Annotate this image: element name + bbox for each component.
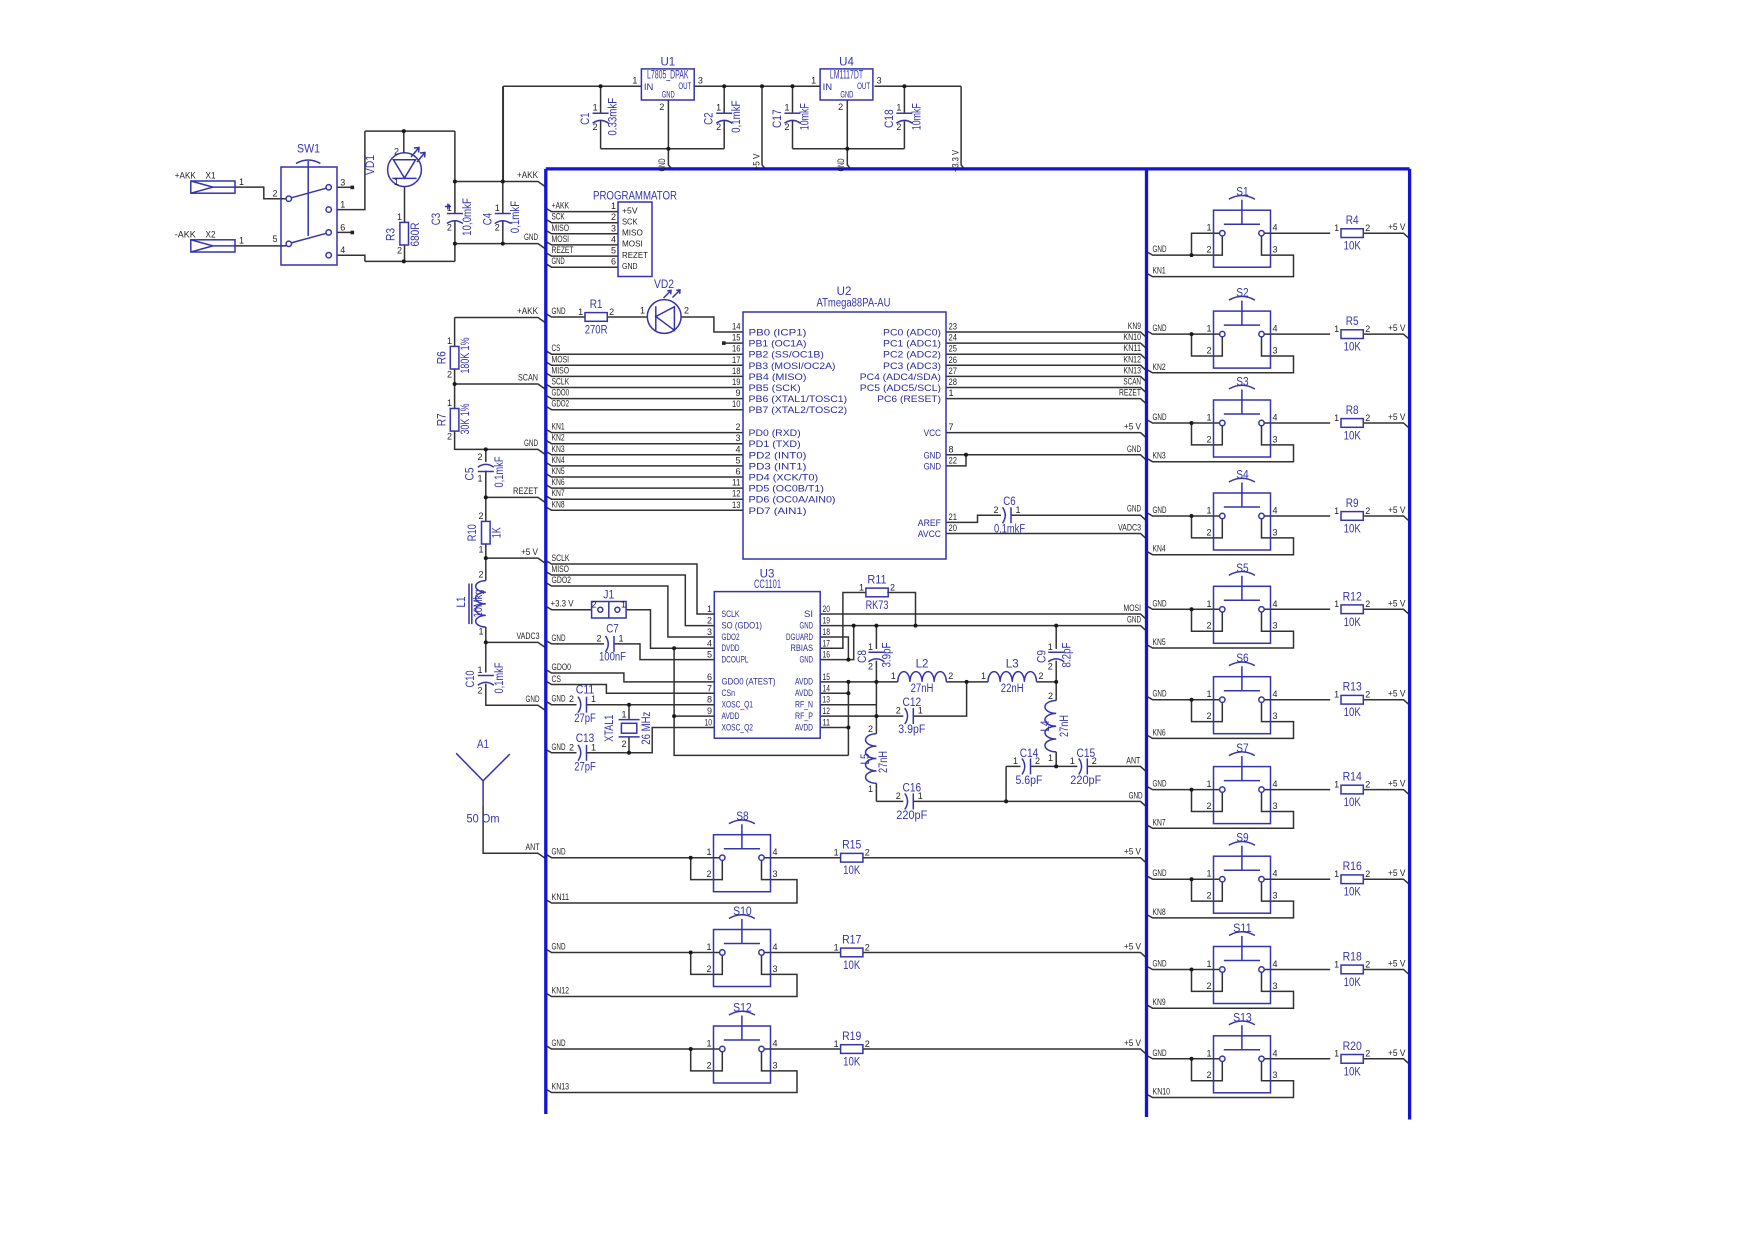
svg-text:2: 2 <box>1365 506 1370 516</box>
svg-text:10mkF: 10mkF <box>800 103 812 130</box>
svg-text:13: 13 <box>732 500 741 510</box>
svg-text:1: 1 <box>1048 642 1053 652</box>
svg-text:1: 1 <box>1048 753 1053 763</box>
svg-text:RF_N: RF_N <box>795 700 813 711</box>
svg-text:A1: A1 <box>477 739 489 751</box>
svg-text:GND: GND <box>1153 505 1167 515</box>
svg-text:S5: S5 <box>1236 563 1248 575</box>
svg-text:KN1: KN1 <box>552 422 565 432</box>
svg-text:50 Om: 50 Om <box>467 814 500 826</box>
svg-text:AREF: AREF <box>918 518 941 529</box>
svg-text:S4: S4 <box>1236 470 1249 482</box>
svg-text:SW1: SW1 <box>297 144 320 156</box>
svg-text:PD6 (OC0A/AIN0): PD6 (OC0A/AIN0) <box>749 495 836 506</box>
svg-text:SO (GDO1): SO (GDO1) <box>722 620 763 631</box>
svg-text:X1: X1 <box>206 171 216 181</box>
svg-text:2: 2 <box>1365 324 1370 334</box>
svg-text:14: 14 <box>732 322 741 332</box>
svg-text:2: 2 <box>569 742 574 752</box>
svg-text:22: 22 <box>949 455 958 465</box>
svg-text:17: 17 <box>732 355 741 365</box>
svg-text:0,1mkF: 0,1mkF <box>731 100 743 132</box>
svg-text:3: 3 <box>1273 621 1278 631</box>
svg-text:10K: 10K <box>1344 1066 1361 1078</box>
svg-text:4: 4 <box>1273 1048 1278 1058</box>
svg-text:KN5: KN5 <box>552 466 565 476</box>
svg-text:3: 3 <box>1273 711 1278 721</box>
svg-text:AVDD: AVDD <box>795 722 813 733</box>
svg-text:MOSI: MOSI <box>552 354 570 364</box>
svg-text:10K: 10K <box>843 960 860 972</box>
svg-text:PD3 (INT1): PD3 (INT1) <box>749 461 807 472</box>
svg-text:20: 20 <box>949 523 958 533</box>
svg-text:2: 2 <box>1365 779 1370 789</box>
svg-text:1: 1 <box>593 103 598 113</box>
svg-text:25: 25 <box>949 344 958 354</box>
svg-text:1: 1 <box>1334 779 1339 789</box>
svg-text:GND: GND <box>1153 323 1167 333</box>
svg-text:4: 4 <box>1273 599 1278 609</box>
svg-text:GND: GND <box>1153 598 1167 608</box>
svg-text:0,1mkF: 0,1mkF <box>494 457 506 488</box>
svg-text:GDO0: GDO0 <box>552 388 570 398</box>
svg-text:1: 1 <box>868 642 873 652</box>
svg-text:GND: GND <box>1153 412 1167 422</box>
svg-text:PC3 (ADC3): PC3 (ADC3) <box>883 361 941 372</box>
svg-text:GND: GND <box>524 232 538 242</box>
svg-text:2: 2 <box>1365 599 1370 609</box>
svg-text:270R: 270R <box>585 325 608 337</box>
svg-text:+5 V: +5 V <box>1388 323 1406 333</box>
svg-text:REZET: REZET <box>1119 388 1141 398</box>
svg-text:10Mkg: 10Mkg <box>473 590 485 618</box>
svg-text:1: 1 <box>1334 599 1339 609</box>
svg-text:2: 2 <box>896 706 901 716</box>
svg-text:OUT: OUT <box>857 81 870 92</box>
svg-text:GND: GND <box>1153 1048 1167 1058</box>
svg-text:DCOUPL: DCOUPL <box>722 654 749 665</box>
svg-text:S13: S13 <box>1233 1012 1252 1024</box>
svg-text:+5 V: +5 V <box>1388 505 1406 515</box>
svg-text:GDO2: GDO2 <box>552 399 570 409</box>
svg-text:1: 1 <box>1334 869 1339 879</box>
svg-text:C4: C4 <box>482 212 494 225</box>
svg-text:+5 V: +5 V <box>1388 598 1406 608</box>
svg-text:3: 3 <box>1273 245 1278 255</box>
svg-text:15: 15 <box>732 333 741 343</box>
svg-text:1: 1 <box>1206 324 1211 334</box>
svg-text:10K: 10K <box>1344 707 1361 719</box>
svg-text:5: 5 <box>611 246 616 256</box>
svg-text:GDO0 (ATEST): GDO0 (ATEST) <box>722 677 776 688</box>
svg-text:KN13: KN13 <box>1123 365 1141 375</box>
svg-text:1: 1 <box>896 103 901 113</box>
svg-text:4: 4 <box>1273 689 1278 699</box>
svg-text:23: 23 <box>949 322 958 332</box>
svg-text:1: 1 <box>611 201 616 211</box>
svg-text:PC1 (ADC1): PC1 (ADC1) <box>883 339 941 350</box>
svg-text:GND: GND <box>1153 689 1167 699</box>
svg-text:10K: 10K <box>1344 977 1361 989</box>
svg-text:9: 9 <box>735 388 740 398</box>
svg-text:2: 2 <box>659 102 664 112</box>
svg-text:1: 1 <box>1206 599 1211 609</box>
svg-text:KN3: KN3 <box>552 444 565 454</box>
svg-text:GND: GND <box>800 654 814 665</box>
svg-text:2: 2 <box>868 662 873 672</box>
svg-text:R11: R11 <box>867 575 886 587</box>
svg-text:27nH: 27nH <box>1059 715 1071 737</box>
svg-text:6: 6 <box>611 257 616 267</box>
svg-text:+5 V: +5 V <box>1388 1048 1406 1058</box>
svg-text:1: 1 <box>1206 869 1211 879</box>
svg-text:2: 2 <box>896 791 901 801</box>
svg-text:GND: GND <box>1129 790 1143 800</box>
svg-text:6: 6 <box>707 672 712 682</box>
svg-text:KN6: KN6 <box>552 477 565 487</box>
svg-text:CC1101: CC1101 <box>754 579 781 591</box>
svg-text:3: 3 <box>1273 981 1278 991</box>
svg-text:PD1 (TXD): PD1 (TXD) <box>749 439 801 450</box>
svg-text:ANT: ANT <box>526 842 540 852</box>
svg-text:PD2 (INT0): PD2 (INT0) <box>749 450 807 461</box>
svg-text:GND: GND <box>657 158 667 171</box>
svg-text:REZET: REZET <box>552 245 574 255</box>
svg-text:GND: GND <box>924 461 942 472</box>
svg-text:1: 1 <box>591 694 596 704</box>
svg-text:10K: 10K <box>1344 241 1361 253</box>
svg-text:4: 4 <box>735 444 740 454</box>
svg-text:GND: GND <box>1153 959 1167 969</box>
svg-text:PB3 (MOSI/OC2A): PB3 (MOSI/OC2A) <box>749 361 836 372</box>
svg-text:PB1 (OC1A): PB1 (OC1A) <box>749 339 807 350</box>
svg-text:PC4 (ADC4/SDA): PC4 (ADC4/SDA) <box>860 372 941 383</box>
svg-text:2: 2 <box>838 102 843 112</box>
svg-text:2: 2 <box>477 452 482 462</box>
svg-text:3: 3 <box>1273 527 1278 537</box>
svg-text:GND: GND <box>524 438 538 448</box>
svg-text:8: 8 <box>707 695 712 705</box>
svg-text:PB2 (SS/OC1B): PB2 (SS/OC1B) <box>749 350 824 361</box>
svg-text:XOSC_Q2: XOSC_Q2 <box>722 722 754 733</box>
svg-text:ANT: ANT <box>1126 755 1140 765</box>
svg-text:1: 1 <box>621 600 626 610</box>
svg-text:2: 2 <box>609 307 614 317</box>
svg-text:IN: IN <box>823 82 833 93</box>
svg-text:16: 16 <box>732 344 741 354</box>
svg-text:2: 2 <box>1206 1070 1211 1080</box>
svg-text:SCK: SCK <box>622 217 638 227</box>
svg-text:PB7 (XTAL2/TOSC2): PB7 (XTAL2/TOSC2) <box>749 405 848 416</box>
svg-text:SCLK: SCLK <box>722 609 740 620</box>
svg-text:1: 1 <box>239 236 244 246</box>
svg-text:1: 1 <box>1334 324 1339 334</box>
svg-text:2: 2 <box>478 511 483 521</box>
svg-text:GND: GND <box>1153 868 1167 878</box>
svg-text:2: 2 <box>707 616 712 626</box>
svg-text:8: 8 <box>949 444 954 454</box>
svg-text:6: 6 <box>735 467 740 477</box>
svg-text:3: 3 <box>735 433 740 443</box>
svg-text:2: 2 <box>593 122 598 132</box>
svg-text:10K: 10K <box>843 865 860 877</box>
svg-text:4: 4 <box>773 942 778 952</box>
svg-text:+5 V: +5 V <box>1124 422 1141 432</box>
svg-text:SCLK: SCLK <box>552 553 570 563</box>
svg-text:1: 1 <box>834 848 839 858</box>
svg-text:+5 V: +5 V <box>752 154 762 171</box>
svg-text:GDO2: GDO2 <box>722 632 740 643</box>
svg-text:PROGRAMMATOR: PROGRAMMATOR <box>593 191 677 203</box>
svg-text:2: 2 <box>621 739 626 749</box>
svg-text:10K: 10K <box>1344 431 1361 443</box>
svg-text:10K: 10K <box>1344 342 1361 354</box>
svg-text:1: 1 <box>1206 506 1211 516</box>
svg-text:SCAN: SCAN <box>1123 377 1141 387</box>
svg-text:GND: GND <box>1153 779 1167 789</box>
svg-text:GND: GND <box>552 694 566 704</box>
svg-text:KN8: KN8 <box>1153 907 1166 917</box>
svg-text:2: 2 <box>784 122 789 132</box>
svg-text:GDO2: GDO2 <box>552 575 572 585</box>
svg-text:AVDD: AVDD <box>795 688 813 699</box>
svg-text:2: 2 <box>706 964 711 974</box>
svg-text:+AKK: +AKK <box>175 171 196 181</box>
svg-text:5: 5 <box>707 650 712 660</box>
svg-text:2: 2 <box>1206 527 1211 537</box>
svg-text:+5 V: +5 V <box>1124 1038 1141 1048</box>
svg-text:11: 11 <box>732 478 741 488</box>
svg-text:1: 1 <box>834 1039 839 1049</box>
svg-text:1: 1 <box>918 706 923 716</box>
svg-text:1: 1 <box>1206 413 1211 423</box>
svg-text:4: 4 <box>773 847 778 857</box>
svg-text:J1: J1 <box>603 590 614 602</box>
svg-text:3: 3 <box>1273 434 1278 444</box>
svg-text:3: 3 <box>773 869 778 879</box>
svg-text:2: 2 <box>1365 869 1370 879</box>
svg-text:2: 2 <box>993 505 998 515</box>
svg-text:1: 1 <box>640 306 645 316</box>
svg-text:MOSI: MOSI <box>1124 603 1142 613</box>
svg-text:RF_P: RF_P <box>795 711 813 722</box>
svg-text:10K: 10K <box>843 1057 860 1069</box>
svg-text:4: 4 <box>611 234 616 244</box>
svg-text:MISO: MISO <box>552 564 570 574</box>
svg-text:24: 24 <box>949 333 958 343</box>
svg-text:1: 1 <box>621 710 626 720</box>
svg-text:KN9: KN9 <box>1153 997 1166 1007</box>
svg-text:2: 2 <box>1206 621 1211 631</box>
svg-text:KN8: KN8 <box>552 499 565 509</box>
svg-text:3: 3 <box>773 964 778 974</box>
svg-text:KN9: KN9 <box>1128 321 1141 331</box>
svg-text:2: 2 <box>865 848 870 858</box>
svg-text:GND: GND <box>924 450 942 461</box>
svg-text:KN10: KN10 <box>1153 1087 1171 1097</box>
svg-text:S9: S9 <box>1236 833 1248 845</box>
svg-text:SCAN: SCAN <box>518 373 538 383</box>
svg-text:4: 4 <box>1273 869 1278 879</box>
svg-text:GND: GND <box>552 306 566 316</box>
svg-text:GND: GND <box>552 742 566 752</box>
svg-text:2: 2 <box>611 212 616 222</box>
svg-text:2: 2 <box>1206 434 1211 444</box>
svg-text:14: 14 <box>823 683 831 693</box>
svg-text:R3: R3 <box>386 228 398 241</box>
svg-text:30K 1%: 30K 1% <box>460 404 472 435</box>
svg-text:KN11: KN11 <box>1123 343 1141 353</box>
svg-text:2: 2 <box>716 122 721 132</box>
svg-text:MISO: MISO <box>552 365 570 375</box>
svg-text:1K: 1K <box>492 527 504 538</box>
svg-text:+5 V: +5 V <box>1388 412 1406 422</box>
svg-text:+5 V: +5 V <box>521 547 538 557</box>
svg-text:1: 1 <box>949 388 954 398</box>
svg-text:VADC3: VADC3 <box>1118 523 1141 533</box>
svg-text:S6: S6 <box>1236 653 1248 665</box>
svg-text:2: 2 <box>1365 413 1370 423</box>
svg-text:+AKK: +AKK <box>517 306 538 316</box>
svg-text:GND: GND <box>836 158 846 171</box>
svg-text:VD1: VD1 <box>365 155 377 175</box>
svg-text:KN13: KN13 <box>552 1082 570 1092</box>
svg-text:1: 1 <box>811 76 816 86</box>
svg-text:5: 5 <box>735 455 740 465</box>
svg-text:PD5 (OC0B/T1): PD5 (OC0B/T1) <box>749 484 824 495</box>
svg-text:2: 2 <box>1365 690 1370 700</box>
svg-text:R6: R6 <box>436 351 448 364</box>
svg-text:AVDD: AVDD <box>722 711 740 722</box>
svg-text:2: 2 <box>735 422 740 432</box>
svg-text:2: 2 <box>865 1039 870 1049</box>
svg-text:KN6: KN6 <box>1153 727 1166 737</box>
svg-text:PC0 (ADC0): PC0 (ADC0) <box>883 328 941 339</box>
svg-text:PB5 (SCK): PB5 (SCK) <box>749 383 801 394</box>
svg-text:2: 2 <box>1048 691 1053 701</box>
svg-text:GND: GND <box>1127 444 1141 454</box>
svg-text:2: 2 <box>1206 891 1211 901</box>
svg-text:C7: C7 <box>606 623 618 635</box>
svg-text:3: 3 <box>611 223 616 233</box>
svg-text:2: 2 <box>896 122 901 132</box>
svg-text:1: 1 <box>859 582 864 592</box>
svg-text:L1: L1 <box>456 597 468 608</box>
svg-text:1: 1 <box>706 1039 711 1049</box>
svg-text:21: 21 <box>949 512 958 522</box>
svg-text:4: 4 <box>1273 779 1278 789</box>
svg-text:SI: SI <box>804 609 813 620</box>
svg-text:2: 2 <box>1365 959 1370 969</box>
svg-text:2: 2 <box>1035 756 1040 766</box>
svg-text:2: 2 <box>447 223 452 233</box>
svg-text:DVDD: DVDD <box>722 643 740 654</box>
svg-text:+AKK: +AKK <box>552 201 570 211</box>
svg-text:RK73: RK73 <box>866 600 889 612</box>
svg-text:1: 1 <box>340 200 345 210</box>
svg-text:1: 1 <box>918 791 923 801</box>
svg-text:PB6 (XTAL1/TOSC1): PB6 (XTAL1/TOSC1) <box>749 394 848 405</box>
svg-text:2: 2 <box>447 432 452 442</box>
svg-text:PC6 (RESET): PC6 (RESET) <box>877 394 941 405</box>
svg-text:2: 2 <box>394 147 399 157</box>
svg-text:0,1mkF: 0,1mkF <box>994 523 1025 535</box>
svg-text:GND: GND <box>552 256 566 266</box>
svg-text:1: 1 <box>891 671 896 681</box>
svg-text:4: 4 <box>1273 506 1278 516</box>
svg-text:0,1mkF: 0,1mkF <box>510 201 522 233</box>
svg-text:PD4 (XCK/T0): PD4 (XCK/T0) <box>749 473 819 484</box>
svg-text:LM1117DT: LM1117DT <box>830 70 863 82</box>
svg-text:PD7 (AIN1): PD7 (AIN1) <box>749 506 807 517</box>
svg-text:R19: R19 <box>842 1031 861 1043</box>
svg-text:S11: S11 <box>1233 923 1252 935</box>
svg-text:1: 1 <box>1334 1049 1339 1059</box>
svg-text:10K: 10K <box>1344 887 1361 899</box>
svg-text:GND: GND <box>552 633 566 643</box>
svg-text:GND: GND <box>622 261 638 271</box>
svg-text:1: 1 <box>784 103 789 113</box>
svg-text:11: 11 <box>823 718 831 728</box>
svg-text:1: 1 <box>834 942 839 952</box>
svg-text:0.33mkF: 0.33mkF <box>608 98 620 136</box>
svg-text:C3: C3 <box>431 213 443 225</box>
svg-text:2: 2 <box>1365 1049 1370 1059</box>
svg-text:U1: U1 <box>660 57 675 69</box>
svg-text:3: 3 <box>1273 346 1278 356</box>
svg-text:KN1: KN1 <box>1153 266 1166 276</box>
svg-text:REZET: REZET <box>513 486 538 496</box>
svg-text:+3.3 V: +3.3 V <box>951 150 961 172</box>
svg-text:2: 2 <box>1206 711 1211 721</box>
svg-text:220pF: 220pF <box>896 810 927 822</box>
svg-text:KN7: KN7 <box>1153 817 1166 827</box>
svg-text:10mkF: 10mkF <box>911 103 923 130</box>
svg-text:2: 2 <box>948 671 953 681</box>
svg-text:27nH: 27nH <box>878 751 890 773</box>
svg-text:10: 10 <box>732 399 741 409</box>
svg-text:+5 V: +5 V <box>1124 847 1141 857</box>
svg-text:GND: GND <box>552 1038 566 1048</box>
svg-text:28: 28 <box>949 377 958 387</box>
svg-text:+5 V: +5 V <box>1124 942 1141 952</box>
svg-text:1: 1 <box>632 76 637 86</box>
svg-text:2: 2 <box>1206 801 1211 811</box>
svg-text:R18: R18 <box>1343 952 1362 964</box>
svg-text:+5 V: +5 V <box>1388 959 1406 969</box>
svg-text:2: 2 <box>569 694 574 704</box>
svg-text:SCLK: SCLK <box>552 377 570 387</box>
svg-text:19: 19 <box>732 377 741 387</box>
svg-text:CS: CS <box>552 343 561 353</box>
svg-text:27pF: 27pF <box>574 713 596 725</box>
svg-text:U2: U2 <box>837 286 852 298</box>
svg-text:1: 1 <box>591 742 596 752</box>
svg-text:4: 4 <box>707 638 712 648</box>
svg-text:1: 1 <box>706 942 711 952</box>
svg-text:S10: S10 <box>733 906 752 918</box>
svg-text:RBIAS: RBIAS <box>791 643 814 654</box>
svg-text:C10: C10 <box>465 671 477 688</box>
svg-text:PC5 (ADC5/SCL): PC5 (ADC5/SCL) <box>860 383 941 394</box>
svg-text:R5: R5 <box>1346 316 1359 328</box>
svg-text:KN12: KN12 <box>552 986 570 996</box>
svg-text:27pF: 27pF <box>574 761 596 773</box>
svg-text:2: 2 <box>596 633 601 643</box>
svg-text:3: 3 <box>1273 1070 1278 1080</box>
svg-text:5.6pF: 5.6pF <box>1016 775 1043 787</box>
svg-text:+5 V: +5 V <box>1388 779 1406 789</box>
